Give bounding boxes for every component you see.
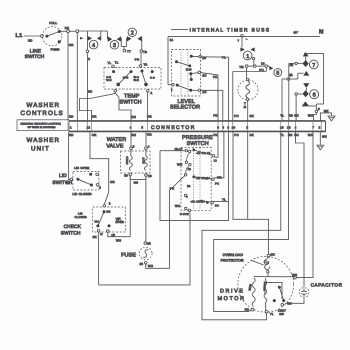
- lid switch: [52, 166, 101, 196]
- svg-text:CONTROLS: CONTROLS: [21, 110, 64, 117]
- svg-text:7: 7: [238, 39, 240, 42]
- wire YL into temp switch: [108, 60, 119, 67]
- svg-text:WASHER: WASHER: [27, 137, 61, 144]
- svg-text:1C: 1C: [202, 90, 206, 94]
- wire contact6 terminal to connector 4: [294, 95, 298, 120]
- svg-text:5M: 5M: [66, 182, 71, 185]
- level selector: [170, 49, 207, 110]
- svg-text:4: 4: [186, 196, 188, 199]
- svg-text:PU: PU: [234, 133, 238, 137]
- svg-text:A: A: [150, 91, 152, 95]
- svg-text:LINE: LINE: [30, 49, 41, 55]
- timer box left edge: [168, 37, 173, 85]
- washer controls label: [21, 102, 64, 117]
- svg-text:OR: OR: [69, 43, 74, 47]
- node TA: [139, 63, 147, 68]
- svg-text:12: 12: [188, 168, 192, 171]
- svg-text:TM: TM: [239, 65, 244, 69]
- svg-text:30: 30: [148, 174, 152, 178]
- svg-text:TA: TA: [144, 63, 148, 67]
- wire temp switch left to water valve BU: [116, 93, 132, 120]
- svg-text:GN: GN: [324, 109, 329, 113]
- svg-text:YL: YL: [222, 55, 226, 59]
- svg-text:WH: WH: [308, 113, 313, 117]
- svg-text:BU: BU: [294, 133, 298, 137]
- connector band: [69, 121, 326, 132]
- svg-text:WH: WH: [148, 264, 153, 268]
- svg-text:M: M: [244, 105, 247, 109]
- svg-text:PULL: PULL: [49, 21, 57, 25]
- svg-text:1: 1: [246, 54, 249, 60]
- wire water valve 30 left down: [130, 176, 138, 237]
- wire fuse bottom to pressure switch common: [146, 187, 175, 269]
- svg-text:HOT: HOT: [142, 157, 145, 163]
- svg-text:3: 3: [88, 57, 90, 61]
- svg-text:30: 30: [147, 242, 151, 246]
- wire RD connector to motor RD: [214, 132, 289, 312]
- svg-text:2C: 2C: [202, 73, 206, 77]
- svg-text:CHECK: CHECK: [64, 224, 82, 230]
- svg-text:COLD: COLD: [126, 156, 129, 164]
- check switch: [61, 202, 126, 237]
- svg-text:PK: PK: [213, 75, 217, 79]
- svg-text:5: 5: [276, 71, 279, 77]
- svg-text:PK: PK: [213, 133, 217, 137]
- svg-text:C-C: C-C: [150, 77, 155, 80]
- svg-text:3: 3: [133, 145, 135, 149]
- svg-text:BK: BK: [250, 133, 254, 137]
- svg-text:OR: OR: [147, 132, 152, 136]
- wire L1 to line switch: [24, 36, 41, 43]
- svg-text:INTERNAL TIMER BUSS: INTERNAL TIMER BUSS: [190, 27, 271, 33]
- svg-text:WATER: WATER: [107, 137, 127, 143]
- wire check switch M down BK: [93, 232, 99, 285]
- svg-text:WH: WH: [177, 162, 182, 166]
- svg-text:9: 9: [318, 107, 320, 111]
- ground lower right: [317, 145, 324, 150]
- svg-text:1: 1: [70, 126, 72, 130]
- svg-text:BU: BU: [132, 115, 136, 119]
- overload protector: [221, 252, 275, 276]
- wire TM to connector 8: [248, 100, 254, 120]
- svg-text:OR: OR: [92, 114, 97, 118]
- svg-text:BK: BK: [93, 235, 97, 239]
- svg-text:YL: YL: [108, 61, 112, 65]
- wire BU connector to capacitor: [296, 132, 305, 287]
- wire OR below connector to water valve: [145, 132, 147, 147]
- svg-text:13: 13: [287, 126, 291, 130]
- wire TB to TA: [135, 52, 141, 64]
- svg-text:SWITCH: SWITCH: [61, 231, 81, 237]
- svg-text:LID CLOSED: LID CLOSED: [72, 192, 91, 196]
- svg-text:OVERLOAD: OVERLOAD: [223, 253, 244, 257]
- timer motor TM: [238, 67, 258, 109]
- svg-text:RD: RD: [245, 307, 250, 311]
- svg-text:GY: GY: [294, 31, 299, 35]
- svg-text:NC: NC: [95, 220, 99, 223]
- line switch SW1: [25, 21, 62, 60]
- svg-text:2: 2: [319, 126, 321, 130]
- wire terminal 9 to connector 7: [308, 113, 317, 121]
- wire capacitor to cent switch: [285, 298, 304, 303]
- svg-text:7: 7: [171, 89, 173, 92]
- wire motor top horizontal: [254, 276, 295, 278]
- svg-text:22: 22: [187, 185, 191, 188]
- svg-text:16: 16: [261, 61, 265, 65]
- wire 22 to connector 13: [289, 63, 295, 120]
- svg-text:SWITCH: SWITCH: [187, 141, 209, 147]
- svg-text:2: 2: [99, 186, 101, 189]
- svg-text:BU: BU: [132, 133, 136, 137]
- wire contact4 terminal down to connector: [86, 53, 88, 121]
- wire check switch BK to pressure switch bottom: [99, 211, 190, 285]
- svg-text:SWITCH: SWITCH: [120, 100, 142, 106]
- svg-text:N2: N2: [289, 73, 293, 77]
- svg-text:YL: YL: [270, 312, 274, 316]
- wire OR below connector to check switch: [90, 132, 115, 205]
- timer contact 7: [290, 52, 318, 69]
- wire stubs through connector: [68, 122, 321, 132]
- svg-text:4: 4: [92, 43, 95, 49]
- svg-text:NUMBERS INDICATE LOCATION: NUMBERS INDICATE LOCATION: [21, 122, 62, 125]
- wire pressure switch common run: [160, 131, 229, 220]
- svg-text:24: 24: [170, 38, 174, 42]
- svg-text:VALVE: VALVE: [106, 144, 124, 150]
- svg-text:2: 2: [131, 31, 134, 37]
- wire timer box to level selector pivot: [168, 84, 172, 86]
- wire 26 to connector 3: [201, 55, 228, 120]
- svg-text:50: 50: [140, 262, 144, 266]
- svg-text:RD: RD: [28, 39, 33, 43]
- temp switch: [88, 68, 161, 106]
- svg-text:TT: TT: [127, 50, 131, 54]
- svg-text:WH: WH: [308, 133, 313, 137]
- svg-text:SWITCH: SWITCH: [25, 54, 45, 60]
- svg-text:6: 6: [313, 93, 316, 99]
- svg-text:DRIVE: DRIVE: [220, 289, 244, 295]
- capacitor: [299, 282, 343, 297]
- fuse F1: [121, 242, 153, 268]
- svg-text:W-E: W-E: [106, 79, 111, 82]
- svg-text:9M: 9M: [106, 211, 111, 214]
- svg-text:W-E: W-E: [123, 77, 128, 80]
- svg-text:PROTECTOR: PROTECTOR: [221, 259, 245, 263]
- drive motor: [218, 256, 294, 312]
- svg-text:WASHER: WASHER: [27, 102, 61, 109]
- timer contact 3: [101, 31, 131, 54]
- svg-text:OF WIRE IN HOUSING: OF WIRE IN HOUSING: [28, 126, 56, 129]
- water valve: [106, 137, 152, 179]
- svg-text:RD: RD: [69, 114, 74, 118]
- wire connector 10 and 8 to motor BK: [233, 131, 268, 254]
- wire TM line: [239, 60, 269, 69]
- washer unit label: [27, 137, 61, 152]
- svg-text:WH: WH: [175, 204, 180, 208]
- svg-text:30: 30: [124, 174, 128, 178]
- run winding: [245, 278, 256, 312]
- svg-text:FUSE: FUSE: [121, 253, 136, 259]
- svg-text:OR: OR: [110, 180, 115, 184]
- svg-text:3: 3: [113, 43, 116, 49]
- svg-text:10: 10: [232, 126, 236, 130]
- svg-text:RD: RD: [69, 133, 74, 137]
- svg-text:M: M: [100, 233, 103, 236]
- centrifugal switch: [265, 283, 292, 316]
- svg-text:OR: OR: [92, 133, 97, 137]
- ground top right: [328, 116, 335, 121]
- svg-text:CAPACITOR: CAPACITOR: [311, 282, 343, 287]
- wire BU below connector to water valve: [130, 132, 132, 147]
- svg-text:PC: PC: [215, 183, 219, 186]
- svg-text:4: 4: [148, 145, 150, 149]
- svg-text:3-CC2: 3-CC2: [180, 213, 189, 216]
- svg-text:TL: TL: [115, 60, 119, 64]
- svg-text:CLOSED: CLOSED: [75, 216, 87, 219]
- wire bus terminal down to connector: [76, 33, 78, 121]
- svg-text:L1: L1: [16, 33, 23, 39]
- wire labels below connector: [69, 132, 313, 137]
- wire pressure switch 5C to common: [214, 200, 229, 202]
- svg-text:GN: GN: [322, 135, 327, 139]
- wire temp switch right to connector 5: [147, 92, 149, 121]
- svg-text:BK: BK: [250, 114, 254, 118]
- wire neutral bus: [168, 36, 320, 38]
- timer contact 5: [259, 66, 293, 80]
- svg-text:PUSH: PUSH: [51, 48, 60, 52]
- svg-text:5-M: 5-M: [186, 68, 192, 72]
- node bus terminal: [69, 30, 78, 33]
- wire 1C to connector 6: [201, 90, 223, 120]
- node L1: [16, 33, 23, 39]
- svg-text:PU: PU: [234, 114, 238, 118]
- svg-text:WH: WH: [116, 238, 121, 242]
- svg-text:N: N: [319, 28, 323, 35]
- timer contact 1: [238, 35, 255, 60]
- wire line switch to terminal BK: [61, 26, 69, 31]
- wire timer box top right: [304, 53, 324, 104]
- svg-text:SW: SW: [279, 313, 284, 316]
- svg-text:BU: BU: [88, 90, 92, 94]
- pressure switch: [160, 135, 226, 216]
- svg-text:BU: BU: [294, 113, 298, 117]
- svg-text:5C: 5C: [215, 205, 219, 208]
- svg-text:W-E: W-E: [134, 79, 139, 82]
- wire N2 to connector 10: [280, 79, 287, 121]
- wire timer bus top: [79, 30, 101, 32]
- svg-text:PU: PU: [135, 58, 139, 62]
- svg-text:WH: WH: [134, 182, 139, 185]
- timer contact 4: [80, 31, 101, 61]
- svg-text:PK: PK: [213, 114, 217, 118]
- svg-text:8: 8: [109, 202, 111, 206]
- node N: [319, 28, 323, 35]
- wire check switch 10 to fuse WH: [108, 232, 130, 242]
- svg-text:YL: YL: [280, 113, 284, 117]
- wire 2C to connector 9: [201, 73, 218, 121]
- wire RD below connector to lid switch: [69, 132, 70, 180]
- wire ground jog top right: [320, 109, 331, 120]
- svg-text:TB: TB: [143, 50, 147, 54]
- wire connector 6 to pressure switch PC: [214, 131, 224, 177]
- svg-text:LID OPEN: LID OPEN: [74, 166, 89, 170]
- svg-text:CONNECTOR: CONNECTOR: [151, 125, 196, 131]
- svg-text:SELECTOR: SELECTOR: [170, 105, 200, 111]
- wire YL connector to motor path: [202, 132, 281, 320]
- timer contact 6: [288, 71, 320, 113]
- svg-text:7: 7: [312, 126, 314, 130]
- svg-text:7: 7: [312, 63, 315, 69]
- svg-text:LID: LID: [59, 173, 67, 179]
- wire WH connector to motor: [292, 132, 313, 279]
- wire PU bracket to connector: [233, 67, 266, 120]
- wire labels above connector left: [69, 114, 218, 119]
- svg-text:MOTOR: MOTOR: [218, 296, 246, 302]
- wire BK terminal down to connector: [67, 33, 69, 121]
- note box numbers indicate location: [17, 120, 69, 131]
- svg-text:BK: BK: [271, 252, 275, 256]
- svg-text:5: 5: [141, 126, 143, 130]
- svg-text:RD: RD: [289, 113, 294, 117]
- timer contact 2: [127, 28, 147, 54]
- node BK terminal: [67, 30, 70, 33]
- wire temp switch left to connector 12: [80, 92, 116, 121]
- wire connector 9 to pressure switch 1C: [215, 131, 218, 157]
- svg-text:IC: IC: [214, 159, 217, 162]
- internal timer buss label: [171, 27, 298, 34]
- start winding: [263, 278, 274, 316]
- wire ground below connector: [320, 131, 326, 145]
- wire water valve 30 right to fuse: [145, 176, 147, 241]
- svg-text:UNIT: UNIT: [31, 145, 50, 152]
